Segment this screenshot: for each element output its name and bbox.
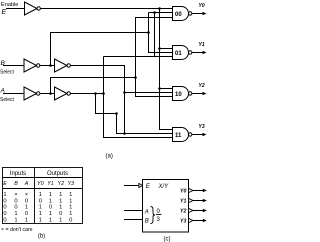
svg-text:×: × [14, 192, 17, 198]
svg-text:1: 1 [39, 205, 42, 211]
svg-text:1: 1 [69, 211, 72, 217]
svg-text:Select: Select [0, 70, 15, 76]
svg-text:0: 0 [25, 211, 28, 217]
svg-text:Inputs: Inputs [10, 171, 26, 177]
svg-text:1: 1 [69, 198, 72, 204]
svg-text:(b): (b) [38, 234, 45, 240]
svg-text:Select: Select [0, 97, 15, 103]
svg-text:1: 1 [14, 217, 17, 223]
svg-text:E: E [2, 9, 7, 16]
svg-text:×: × [25, 192, 28, 198]
svg-text:(c): (c) [164, 237, 171, 242]
svg-text:Y2: Y2 [58, 181, 65, 187]
svg-text:1: 1 [39, 217, 42, 223]
svg-text:0: 0 [49, 205, 52, 211]
svg-text:1: 1 [59, 198, 62, 204]
svg-text:1: 1 [69, 192, 72, 198]
svg-text:1: 1 [49, 211, 52, 217]
svg-text:Y1: Y1 [199, 42, 205, 48]
svg-text:× = don't care: × = don't care [1, 227, 33, 233]
svg-text:E: E [3, 181, 7, 187]
svg-text:1: 1 [59, 217, 62, 223]
svg-text:Y1: Y1 [180, 198, 186, 204]
svg-text:A: A [144, 210, 149, 216]
svg-text:0: 0 [39, 198, 42, 204]
svg-text:1: 1 [59, 192, 62, 198]
svg-text:Y3: Y3 [199, 124, 205, 130]
svg-text:0: 0 [3, 217, 6, 223]
svg-text:0: 0 [3, 205, 6, 211]
svg-text:0: 0 [14, 205, 17, 211]
svg-text:(a): (a) [106, 154, 113, 160]
svg-text:0: 0 [25, 198, 28, 204]
svg-text:Y0: Y0 [199, 3, 205, 9]
svg-text:10: 10 [175, 92, 182, 98]
svg-text:Outputs: Outputs [47, 171, 68, 177]
svg-text:Y2: Y2 [180, 209, 186, 215]
svg-text:1: 1 [59, 205, 62, 211]
svg-text:A: A [24, 181, 29, 187]
svg-text:X/Y: X/Y [158, 184, 170, 190]
svg-text:Y0: Y0 [180, 188, 186, 194]
svg-text:1: 1 [49, 192, 52, 198]
svg-text:11: 11 [175, 133, 182, 139]
svg-text:1: 1 [14, 211, 17, 217]
svg-text:Y1: Y1 [47, 181, 54, 187]
svg-text:B: B [14, 181, 18, 187]
svg-text:1: 1 [25, 217, 28, 223]
svg-text:1: 1 [69, 205, 72, 211]
svg-text:01: 01 [175, 51, 182, 57]
svg-text:Y3: Y3 [180, 219, 186, 225]
svg-text:Enable: Enable [1, 2, 18, 8]
svg-text:00: 00 [175, 12, 182, 18]
svg-text:1: 1 [3, 192, 6, 198]
svg-text:1: 1 [39, 192, 42, 198]
svg-text:1: 1 [49, 198, 52, 204]
svg-text:Y2: Y2 [199, 83, 205, 89]
svg-text:0: 0 [69, 217, 72, 223]
svg-text:B: B [1, 60, 6, 67]
svg-text:1: 1 [25, 205, 28, 211]
svg-text:Y3: Y3 [67, 181, 74, 187]
svg-text:0: 0 [3, 211, 6, 217]
svg-text:0: 0 [59, 211, 62, 217]
svg-text:1: 1 [39, 211, 42, 217]
svg-text:B: B [145, 219, 149, 225]
svg-text:A: A [0, 88, 5, 95]
svg-text:1: 1 [49, 217, 52, 223]
svg-text:0: 0 [14, 198, 17, 204]
svg-text:0: 0 [3, 198, 6, 204]
svg-text:Y0: Y0 [37, 181, 44, 187]
